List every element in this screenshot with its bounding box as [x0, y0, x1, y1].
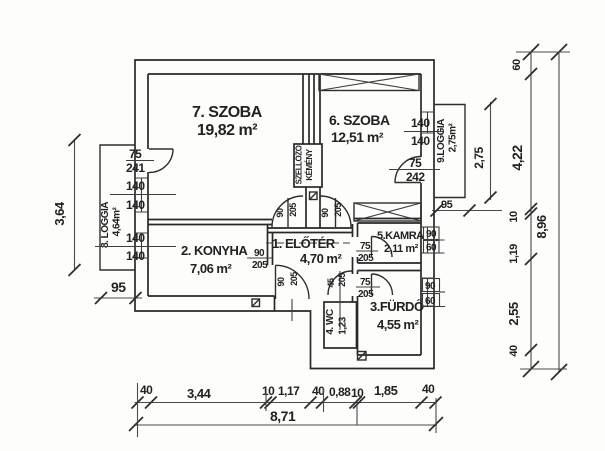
window size box kamra 90 — [424, 227, 440, 240]
room label 7 szoba — [192, 104, 263, 139]
fraction door75 left — [126, 147, 154, 175]
dim left loggia vertical — [52, 134, 81, 276]
svg-text:8. LOGGIA: 8. LOGGIA — [100, 202, 111, 248]
svg-text:3,64: 3,64 — [52, 201, 67, 226]
dim bottom upper line — [132, 397, 442, 409]
dim right inner line — [523, 44, 539, 377]
construction line kitchen door — [291, 299, 293, 321]
fraction door75 bathroom — [356, 277, 380, 300]
wall chimney room6 side — [314, 74, 320, 144]
window room6 right — [421, 112, 434, 133]
room label 2 konyha — [181, 243, 248, 276]
closet X box room6 top — [319, 74, 419, 91]
window bathroom right — [421, 278, 434, 306]
room label 3 furdo — [370, 299, 424, 332]
door D5 kitchen — [276, 265, 310, 299]
svg-text:40: 40 — [140, 383, 153, 397]
svg-text:10: 10 — [262, 384, 275, 398]
fraction window140 room7 — [110, 179, 176, 212]
svg-text:1. ELŐTÉR: 1. ELŐTÉR — [272, 236, 336, 251]
wall chimney room7 side — [303, 74, 309, 144]
svg-text:1,19: 1,19 — [508, 244, 520, 264]
svg-text:9.LOGGIA: 9.LOGGIA — [436, 119, 447, 163]
svg-text:60: 60 — [511, 59, 523, 71]
window size box kamra 60 — [424, 240, 445, 254]
svg-text:90: 90 — [320, 208, 330, 218]
door D6 wc — [328, 271, 352, 295]
svg-text:2,55: 2,55 — [506, 302, 521, 326]
loggia9 outline — [434, 105, 465, 198]
fraction door75 room6 — [389, 156, 440, 184]
fraction window140 room6 — [404, 116, 444, 148]
dim bottom upper labels — [140, 382, 435, 401]
dim left 95 — [94, 279, 142, 304]
room label 9 loggia — [436, 119, 459, 163]
svg-text:12,51 m²: 12,51 m² — [331, 129, 384, 145]
vent shaft box — [294, 144, 322, 187]
room label 8 loggia — [100, 202, 123, 248]
svg-text:6. SZOBA: 6. SZOBA — [329, 112, 390, 128]
fraction door75 kamra — [356, 241, 378, 264]
svg-text:140: 140 — [126, 249, 145, 263]
symbol meter kitchen — [252, 299, 260, 307]
dim right outer line 896 — [534, 44, 567, 380]
svg-text:4,22: 4,22 — [509, 145, 525, 171]
svg-text:4,70 m²: 4,70 m² — [300, 251, 342, 266]
svg-text:2,75: 2,75 — [472, 146, 486, 168]
svg-text:75: 75 — [409, 156, 422, 170]
svg-text:KÉMÉNY: KÉMÉNY — [305, 148, 314, 180]
room label 4 wc — [325, 309, 349, 335]
arc labels door D5 — [276, 272, 299, 287]
svg-text:40: 40 — [422, 382, 435, 396]
window kitchen left — [135, 233, 148, 258]
construction line wc — [339, 271, 341, 330]
svg-text:205: 205 — [337, 273, 347, 287]
svg-text:140: 140 — [126, 179, 145, 193]
svg-text:90: 90 — [425, 281, 436, 292]
svg-text:95: 95 — [441, 199, 453, 211]
svg-text:8,71: 8,71 — [270, 408, 296, 424]
svg-text:90: 90 — [276, 277, 286, 287]
svg-text:8,96: 8,96 — [534, 215, 549, 239]
fraction window140 kitchen — [95, 231, 176, 263]
fraction door90 kitchen — [247, 248, 272, 271]
svg-text:241: 241 — [126, 161, 145, 175]
svg-text:1,85: 1,85 — [374, 383, 398, 398]
svg-text:4,55 m²: 4,55 m² — [377, 317, 419, 332]
svg-text:1,17: 1,17 — [278, 384, 300, 398]
wall band room7 kitchen — [148, 220, 272, 225]
door D8 bathroom — [372, 274, 393, 295]
svg-text:4. WC: 4. WC — [325, 309, 336, 335]
svg-text:60: 60 — [426, 243, 437, 254]
wall kitchen right — [268, 225, 273, 266]
dashed line eloter — [266, 242, 352, 244]
room bathroom outline — [358, 271, 422, 356]
wall outer outline — [135, 60, 434, 369]
door D4 room6 to loggia9 — [395, 157, 422, 183]
svg-text:2. KONYHA: 2. KONYHA — [181, 243, 248, 258]
svg-text:1,23: 1,23 — [338, 316, 349, 334]
wall kamra top — [354, 218, 421, 220]
svg-text:SZELLŐZŐ: SZELLŐZŐ — [295, 145, 304, 184]
vent shaft label — [295, 145, 315, 184]
room wc box — [324, 302, 357, 348]
svg-text:205: 205 — [333, 203, 343, 217]
arc labels door D3 — [320, 203, 343, 218]
svg-text:45: 45 — [326, 278, 336, 288]
svg-text:90: 90 — [426, 229, 437, 240]
window size box bathroom 60 — [423, 294, 446, 308]
window room7 left — [135, 178, 148, 212]
svg-text:0,88: 0,88 — [329, 385, 351, 399]
svg-text:10: 10 — [351, 386, 364, 400]
svg-text:95: 95 — [111, 279, 126, 295]
svg-text:205: 205 — [358, 289, 374, 300]
svg-text:40: 40 — [508, 345, 520, 357]
svg-text:140: 140 — [411, 116, 430, 130]
window size box bathroom 90 — [423, 279, 446, 293]
svg-text:60: 60 — [425, 296, 436, 307]
svg-text:205: 205 — [288, 203, 298, 217]
svg-text:90: 90 — [254, 248, 265, 259]
dim right inner labels — [506, 59, 525, 357]
svg-text:7. SZOBA: 7. SZOBA — [192, 104, 263, 121]
closet X box room6 bottom — [354, 203, 421, 221]
flue symbol box — [310, 192, 318, 200]
svg-text:242: 242 — [406, 170, 425, 184]
door D3 eloter to room6 — [320, 196, 351, 227]
svg-text:5.KAMRA: 5.KAMRA — [377, 230, 424, 242]
door D1 room7 to loggia8 — [149, 149, 173, 173]
window kamra right — [421, 227, 434, 253]
room label 5 kamra — [377, 230, 424, 255]
svg-text:19,82 m²: 19,82 m² — [197, 122, 257, 139]
loggia8 outline — [100, 145, 135, 270]
arc labels door D6 — [326, 273, 347, 288]
room kamra outline — [358, 223, 422, 263]
shaft neck walls — [306, 187, 320, 228]
dim bottom extension lines — [138, 383, 437, 437]
symbol meter bathroom — [358, 352, 367, 361]
wall inner right — [420, 74, 422, 355]
svg-text:10: 10 — [508, 211, 520, 223]
svg-text:75: 75 — [360, 277, 371, 288]
wall eloter right — [353, 224, 358, 302]
svg-text:3.FÜRDŐ: 3.FÜRDŐ — [370, 299, 424, 314]
dim bottom lower line 871 — [129, 408, 443, 431]
dim right 275 — [472, 98, 497, 204]
dim right connectors — [516, 52, 570, 369]
svg-text:205: 205 — [358, 253, 374, 264]
svg-text:140: 140 — [126, 198, 145, 212]
arc labels door D2 — [275, 203, 298, 218]
svg-text:75: 75 — [129, 147, 142, 161]
svg-text:4,64m²: 4,64m² — [112, 206, 123, 236]
wall inner left — [147, 74, 149, 296]
dim right 95 — [431, 199, 503, 217]
wall inner bottom kitchen — [148, 296, 275, 311]
svg-text:2,11 m²: 2,11 m² — [384, 243, 419, 255]
svg-text:75: 75 — [360, 241, 371, 252]
svg-text:7,06 m²: 7,06 m² — [190, 261, 232, 276]
svg-text:205: 205 — [252, 260, 268, 271]
wall inner top — [148, 73, 421, 75]
svg-text:90: 90 — [275, 208, 285, 218]
room label 6 szoba — [329, 112, 390, 145]
wall band eloter top — [267, 228, 352, 233]
svg-text:2,75m²: 2,75m² — [448, 122, 459, 152]
svg-text:3,44: 3,44 — [187, 386, 212, 401]
svg-text:205: 205 — [289, 272, 299, 286]
svg-text:140: 140 — [126, 231, 145, 245]
room label 1 eloter — [272, 236, 342, 266]
door D2 eloter to room7 — [272, 196, 303, 227]
door D7 kamra — [372, 237, 393, 258]
svg-text:140: 140 — [411, 134, 430, 148]
